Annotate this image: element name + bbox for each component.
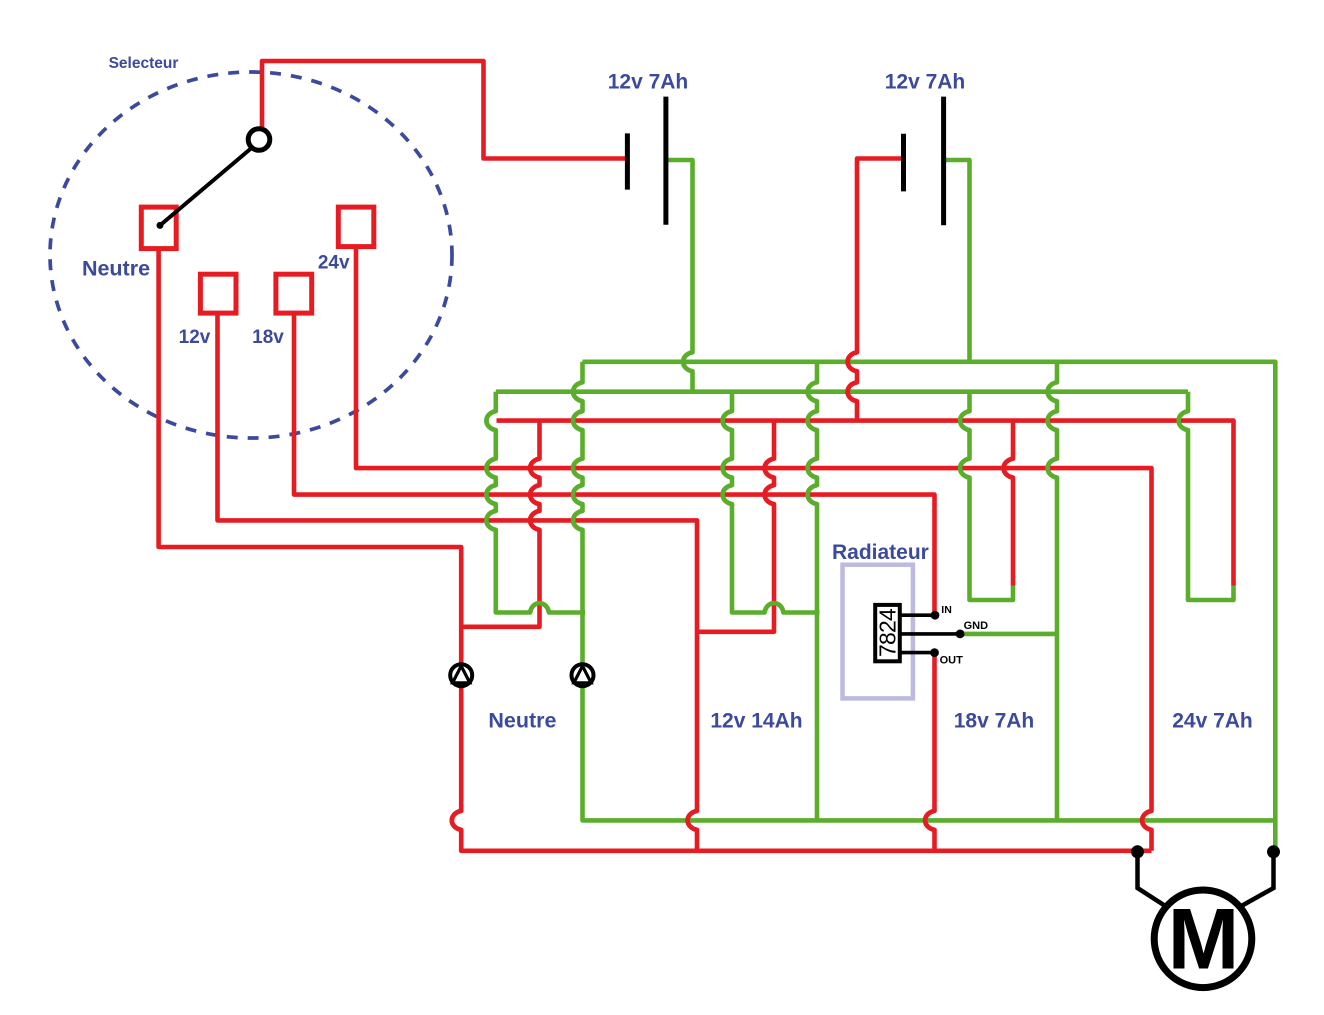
wire green vertical 817 (808, 362, 817, 823)
pin IN node (931, 611, 940, 620)
pin GND node (956, 630, 965, 639)
svg-text:IN: IN (941, 604, 952, 616)
motor lead right (1236, 852, 1274, 909)
svg-text:Neutre: Neutre (82, 257, 150, 281)
terminal Neutre (141, 207, 176, 249)
wire green battery2 down (944, 160, 970, 362)
radiateur heatsink box (843, 565, 913, 699)
svg-text:12v 14Ah: 12v 14Ah (710, 710, 802, 733)
wire red vertical 774 (697, 421, 774, 632)
svg-text:12v 7Ah: 12v 7Ah (608, 71, 689, 94)
svg-text:18v: 18v (252, 327, 284, 348)
wire green vertical 495 + jog 612 (486, 392, 585, 613)
pin IN line (900, 613, 935, 617)
wire red vertical 539 (461, 421, 539, 627)
battery B2 positive plate (941, 97, 946, 226)
wire green vertical 582 + green bottom bus (573, 362, 1275, 821)
selector dashed boundary (50, 72, 452, 438)
motor terminal node left (1131, 845, 1144, 858)
wire green vertical 1188 U-link (1179, 392, 1234, 600)
svg-text:Radiateur: Radiateur (832, 541, 929, 564)
selector pivot circle (248, 129, 270, 151)
svg-text:7824: 7824 (875, 608, 901, 657)
wire red battery2 down (848, 159, 904, 421)
battery B1 positive plate (663, 97, 668, 225)
pin OUT node (930, 648, 939, 657)
svg-text:GND: GND (964, 620, 989, 632)
wire red selector-to-battery1 (262, 61, 627, 159)
wire red 12v h4 (218, 313, 698, 853)
terminal 12v (200, 274, 236, 313)
wire red 24v h2 (356, 247, 1152, 851)
wire green battery1 down (666, 160, 693, 392)
svg-text:12v 7Ah: 12v 7Ah (885, 71, 966, 94)
pin OUT line (900, 651, 935, 655)
wire green vertical 732 + jog 612 (723, 392, 820, 613)
pin GND line (900, 632, 960, 636)
svg-text:24v: 24v (318, 253, 350, 274)
selector switch lever (160, 148, 252, 225)
svg-text:M: M (1168, 892, 1240, 988)
motor terminal node right (1267, 845, 1280, 858)
wire hop bumps redrawn on top (452, 352, 1188, 830)
wire red OUT down (925, 653, 934, 851)
wire red neutre + bottom bus (159, 249, 1152, 851)
wire red vertical 1013 (1004, 421, 1013, 586)
wire green vertical 969 U-link (960, 392, 1013, 600)
fuse symbol F1 (450, 664, 472, 686)
wire red 18v h3 to IN (294, 313, 935, 615)
motor lead left (1138, 852, 1171, 909)
fuse symbol F2 (572, 664, 594, 686)
battery B2 negative plate (901, 134, 906, 192)
regulator U1 7824 body (875, 605, 900, 661)
terminal 18v (276, 274, 312, 313)
motor M1 circle (1154, 890, 1252, 988)
svg-text:Selecteur: Selecteur (109, 55, 179, 72)
wire red bus h1 (497, 421, 1234, 586)
svg-text:24v 7Ah: 24v 7Ah (1172, 710, 1253, 733)
svg-text:Neutre: Neutre (488, 709, 556, 733)
svg-text:OUT: OUT (940, 655, 964, 667)
wire green bus h2 (496, 389, 1188, 394)
wire green vertical 1057 (1048, 362, 1057, 823)
svg-text:12v: 12v (179, 327, 211, 348)
terminal 24v (338, 207, 374, 247)
wire green GND link (960, 632, 1057, 637)
svg-text:18v 7Ah: 18v 7Ah (954, 710, 1035, 733)
wire green bus h1 (583, 362, 1276, 852)
battery B1 negative plate (625, 133, 630, 189)
